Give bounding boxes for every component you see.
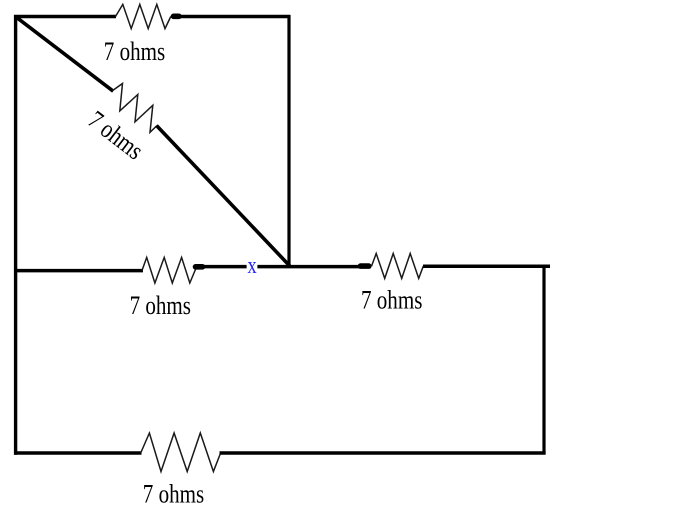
diagonal wire upper segment: [16, 17, 113, 91]
bottom-right vertical wire: [542, 266, 545, 455]
top wire left segment: [14, 15, 116, 18]
resistor R4 zigzag: [372, 254, 424, 279]
bottom wire right segment: [220, 451, 546, 455]
middle wire center segment: [202, 265, 360, 269]
diagonal wire lower segment: [157, 126, 290, 267]
svg-text:7 ohms: 7 ohms: [361, 287, 422, 316]
middle wire right segment: [423, 264, 550, 268]
resistor R5 zigzag: [141, 433, 221, 472]
resistor R3 zigzag: [142, 257, 197, 283]
resistor R1 lead dash: [174, 13, 180, 19]
svg-text:7 ohms: 7 ohms: [130, 292, 191, 321]
middle wire left segment: [14, 269, 143, 273]
left vertical wire: [14, 15, 17, 455]
svg-text:x: x: [248, 252, 257, 279]
resistor R3 lead dash: [196, 264, 203, 270]
node X white backing: [247, 259, 258, 274]
top-right vertical wire: [287, 15, 290, 268]
resistor R2 zigzag (diagonal): [113, 84, 157, 133]
svg-text:7 ohms: 7 ohms: [104, 38, 165, 67]
svg-text:7 ohms: 7 ohms: [143, 480, 204, 509]
svg-text:7 ohms: 7 ohms: [82, 106, 148, 166]
bottom wire left segment: [14, 451, 142, 455]
top wire right segment: [179, 15, 290, 18]
resistor R1 zigzag: [116, 4, 171, 28]
resistor R4 lead dash: [361, 263, 369, 269]
